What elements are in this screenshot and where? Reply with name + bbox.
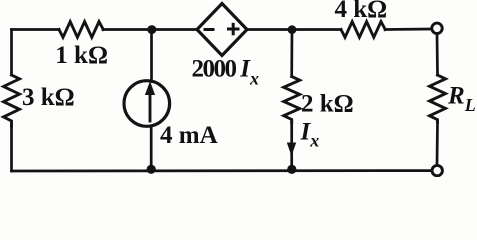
wire right vertical upper (terminal to RL)	[436, 35, 439, 75]
svg-text:3 kΩ: 3 kΩ	[22, 84, 75, 111]
minus sign inside diamond	[204, 28, 215, 31]
svg-text:Ix: Ix	[300, 119, 320, 151]
svg-text:4 kΩ: 4 kΩ	[335, 0, 388, 23]
dependent source U1 diamond	[197, 4, 247, 56]
current Ix arrowhead on 2k branch	[287, 143, 296, 157]
current source arrow shaft	[149, 93, 152, 121]
svg-text:RL: RL	[447, 82, 476, 115]
terminal bottom-right open circle	[432, 165, 442, 175]
junction bottom node dot below source	[147, 165, 156, 174]
svg-text:2000 Ix: 2000 Ix	[192, 56, 259, 89]
wire left vertical upper	[10, 30, 13, 76]
svg-text:4 mA: 4 mA	[160, 122, 218, 149]
resistor R 3kohm zigzag	[4, 75, 20, 126]
wire from 1k resistor to node A	[103, 28, 197, 31]
wire from node A down to current source	[150, 30, 153, 82]
svg-text:2 kΩ: 2 kΩ	[301, 91, 354, 118]
junction node A dot	[147, 25, 156, 34]
current source I1 circle	[124, 81, 170, 127]
terminal top-right open circle	[432, 23, 442, 33]
wire bottom from left corner to bottom-right terminal	[12, 169, 431, 172]
current source arrowhead	[145, 81, 155, 95]
junction node B dot	[288, 25, 297, 34]
resistor R 2kohm zigzag	[284, 77, 300, 123]
wire from 4k resistor to top-right terminal	[385, 28, 431, 31]
wire top-left from corner to 1k resistor	[12, 28, 60, 31]
resistor RL zigzag	[430, 75, 446, 122]
wire from diamond right vertex to node B	[247, 28, 341, 31]
wire RL to bottom-right terminal	[436, 122, 439, 164]
svg-text:1 kΩ: 1 kΩ	[55, 42, 108, 69]
wire node B down to 2k resistor	[290, 30, 293, 77]
wire from current source down to bottom node	[150, 126, 153, 170]
resistor R 1kohm zigzag	[59, 22, 103, 38]
wire 2k resistor to bottom node with current arrow	[290, 123, 293, 170]
wire left vertical lower	[10, 126, 13, 171]
resistor R 4kohm zigzag	[341, 22, 385, 38]
junction bottom node dot below 2k	[287, 165, 296, 174]
plus sign inside diamond	[227, 28, 240, 31]
